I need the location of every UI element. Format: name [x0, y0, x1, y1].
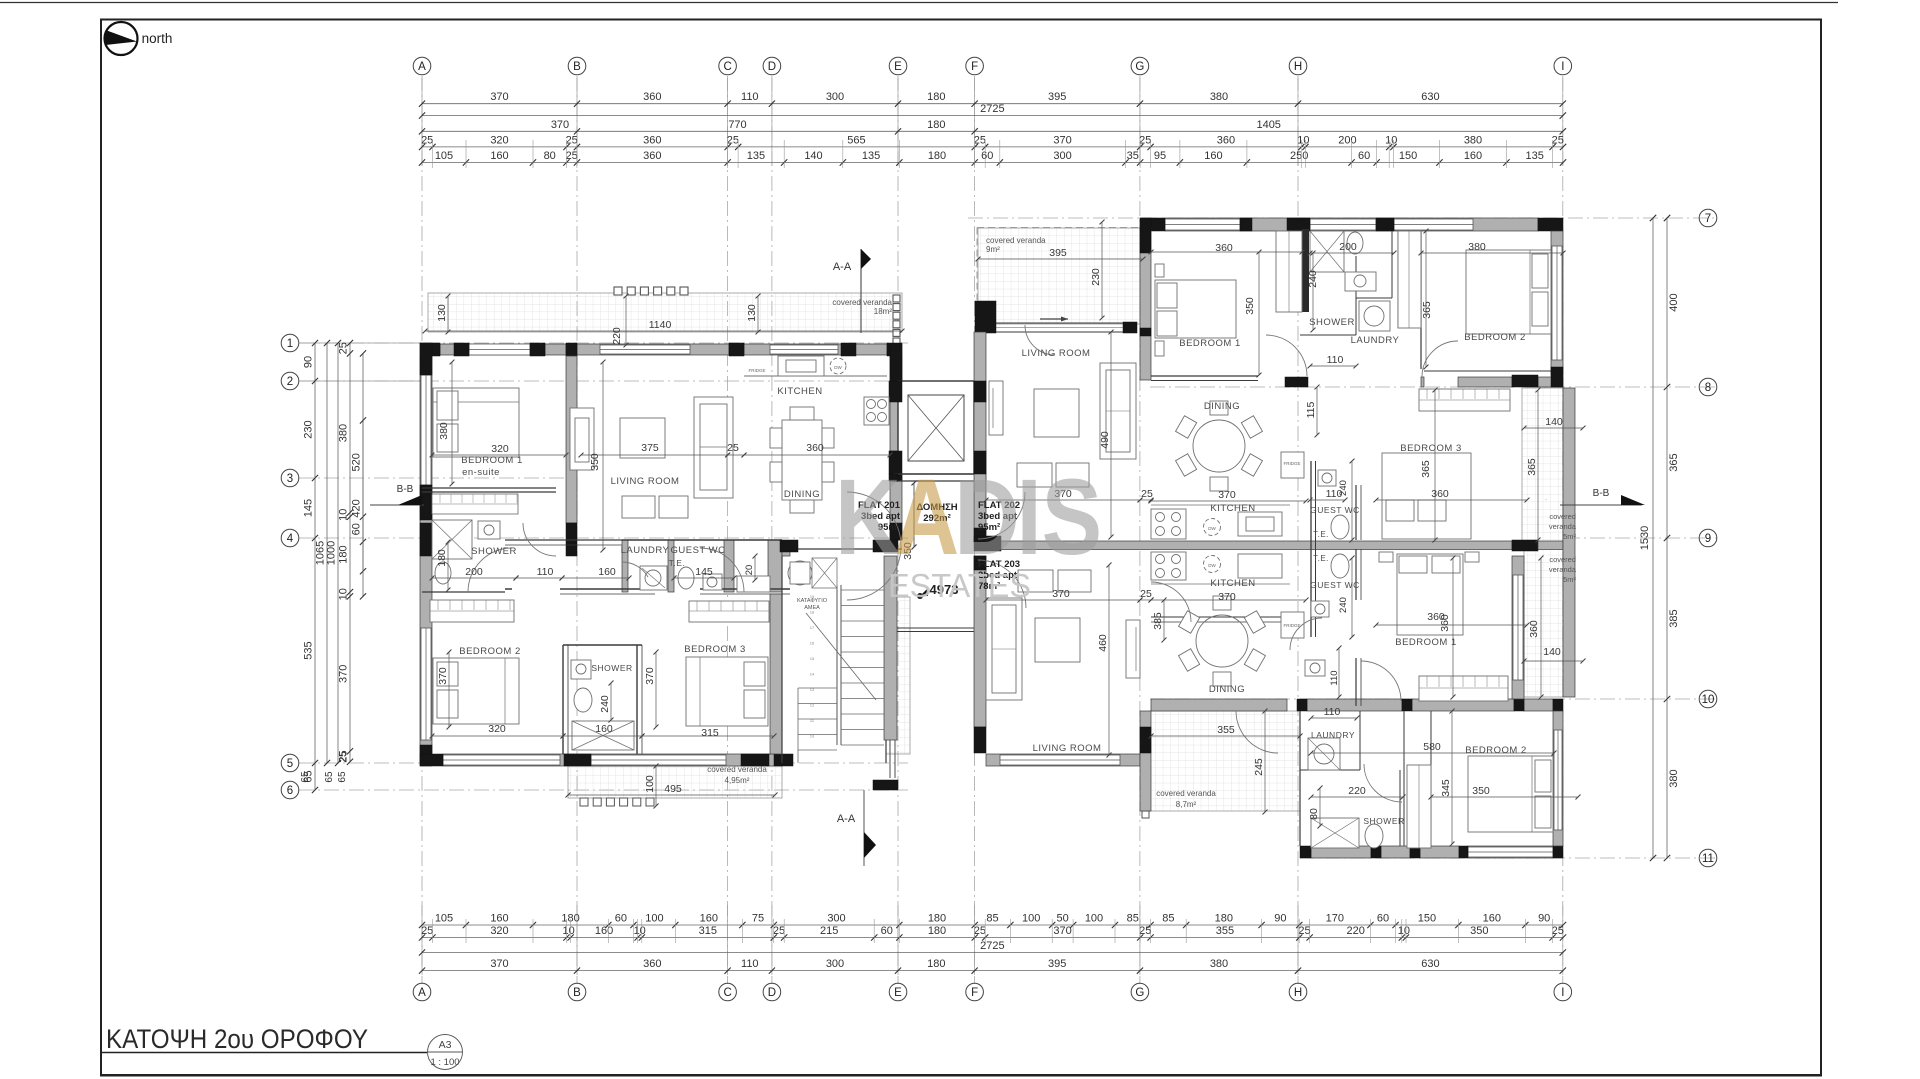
svg-text:240: 240: [1338, 480, 1349, 496]
svg-text:7: 7: [1705, 213, 1711, 225]
svg-text:en-suite: en-suite: [462, 467, 500, 478]
svg-text:DINING: DINING: [784, 489, 820, 500]
svg-text:395: 395: [1048, 958, 1066, 970]
svg-text:K: K: [835, 458, 901, 578]
svg-text:160: 160: [490, 150, 508, 162]
svg-text:18m²: 18m²: [874, 307, 893, 316]
svg-text:135: 135: [862, 150, 880, 162]
svg-text:25: 25: [974, 925, 986, 937]
svg-text:180: 180: [928, 150, 946, 162]
svg-text:370: 370: [551, 119, 569, 131]
svg-text:25: 25: [566, 134, 578, 146]
svg-text:15: 15: [810, 656, 815, 661]
svg-text:360: 360: [1431, 488, 1449, 500]
svg-text:535: 535: [303, 641, 315, 659]
svg-text:10: 10: [1297, 134, 1309, 146]
svg-text:25: 25: [1139, 925, 1151, 937]
svg-text:25: 25: [773, 925, 785, 937]
svg-text:85: 85: [986, 913, 998, 925]
svg-text:370: 370: [437, 667, 449, 685]
svg-text:380: 380: [1210, 91, 1228, 103]
svg-text:320: 320: [490, 134, 508, 146]
svg-text:395: 395: [1048, 91, 1066, 103]
svg-text:180: 180: [1215, 913, 1233, 925]
svg-text:BEDROOM 2: BEDROOM 2: [459, 646, 521, 657]
svg-text:60: 60: [1358, 150, 1370, 162]
svg-text:25: 25: [1140, 588, 1152, 600]
svg-text:I: I: [1016, 458, 1041, 578]
svg-text:D: D: [954, 458, 1020, 578]
svg-text:90: 90: [303, 356, 315, 368]
svg-text:25: 25: [566, 150, 578, 162]
svg-text:230: 230: [1090, 268, 1102, 286]
svg-text:160: 160: [598, 566, 616, 578]
svg-text:395: 395: [1049, 247, 1067, 259]
svg-text:300: 300: [826, 958, 844, 970]
svg-text:90: 90: [1538, 913, 1550, 925]
svg-text:215: 215: [820, 925, 838, 937]
svg-text:160: 160: [1204, 150, 1222, 162]
svg-text:60: 60: [881, 925, 893, 937]
svg-text:BEDROOM 1: BEDROOM 1: [461, 455, 523, 466]
svg-text:315: 315: [701, 727, 719, 739]
svg-text:16: 16: [810, 641, 815, 646]
svg-text:covered: covered: [1549, 555, 1576, 564]
svg-text:ESTATES: ESTATES: [888, 567, 1031, 604]
svg-text:200: 200: [465, 566, 483, 578]
svg-text:9: 9: [1705, 533, 1711, 545]
svg-text:B-B: B-B: [397, 484, 414, 495]
svg-text:380: 380: [1464, 134, 1482, 146]
svg-text:H: H: [1294, 987, 1302, 999]
svg-text:160: 160: [490, 913, 508, 925]
svg-text:355: 355: [1216, 925, 1234, 937]
svg-text:3: 3: [287, 473, 293, 485]
svg-text:245: 245: [1253, 758, 1265, 776]
svg-text:A3: A3: [439, 1039, 452, 1051]
svg-text:110: 110: [537, 566, 554, 578]
svg-text:520: 520: [351, 453, 363, 471]
svg-text:GUEST WC: GUEST WC: [1310, 505, 1360, 515]
svg-text:75: 75: [752, 913, 764, 925]
svg-text:BEDROOM 1: BEDROOM 1: [1395, 637, 1457, 648]
svg-text:95: 95: [1154, 150, 1166, 162]
svg-text:365: 365: [1668, 453, 1680, 471]
svg-text:1405: 1405: [1256, 119, 1280, 131]
svg-text:370: 370: [1053, 134, 1071, 146]
svg-text:I: I: [1561, 61, 1564, 73]
svg-text:180: 180: [338, 545, 350, 563]
svg-text:10: 10: [338, 509, 350, 521]
svg-text:T.E.: T.E.: [1313, 530, 1329, 539]
svg-text:25: 25: [1298, 925, 1310, 937]
svg-text:110: 110: [741, 91, 759, 103]
svg-text:105: 105: [435, 150, 453, 162]
svg-text:145: 145: [303, 499, 315, 517]
svg-text:9m²: 9m²: [986, 245, 1000, 254]
svg-text:365: 365: [1421, 301, 1433, 319]
svg-text:8,7m²: 8,7m²: [1176, 800, 1197, 809]
svg-text:100: 100: [1022, 913, 1040, 925]
svg-text:KITCHEN: KITCHEN: [1210, 503, 1255, 514]
svg-text:60: 60: [351, 523, 363, 535]
svg-text:T.E.: T.E.: [669, 558, 686, 568]
svg-text:A-A: A-A: [837, 813, 856, 825]
svg-text:180: 180: [436, 549, 448, 567]
svg-text:E: E: [894, 987, 902, 999]
svg-text:365: 365: [1420, 460, 1432, 478]
svg-text:420: 420: [351, 499, 363, 517]
svg-text:160: 160: [1483, 913, 1501, 925]
svg-text:105: 105: [435, 913, 453, 925]
svg-text:C: C: [723, 987, 731, 999]
svg-text:B: B: [573, 61, 581, 73]
svg-text:150: 150: [1399, 150, 1417, 162]
svg-text:135: 135: [1526, 150, 1544, 162]
svg-text:320: 320: [490, 925, 508, 937]
svg-text:300: 300: [1053, 150, 1071, 162]
svg-text:1: 1: [287, 338, 293, 350]
svg-text:180: 180: [927, 958, 945, 970]
svg-text:355: 355: [1217, 724, 1235, 736]
svg-text:80: 80: [544, 150, 556, 162]
svg-text:10: 10: [1702, 694, 1715, 706]
svg-text:C: C: [723, 61, 731, 73]
svg-text:1530: 1530: [1639, 526, 1651, 550]
svg-text:25: 25: [338, 751, 349, 763]
svg-text:65: 65: [300, 771, 311, 783]
svg-text:350: 350: [589, 453, 601, 471]
svg-text:veranda: veranda: [1549, 522, 1577, 531]
svg-text:380: 380: [1668, 769, 1680, 787]
svg-text:160: 160: [1464, 150, 1482, 162]
svg-text:SHOWER: SHOWER: [591, 663, 632, 673]
svg-text:A: A: [894, 458, 960, 578]
svg-text:370: 370: [1218, 591, 1236, 603]
svg-text:360: 360: [1528, 620, 1540, 638]
svg-text:F: F: [971, 61, 978, 73]
svg-text:E: E: [894, 61, 902, 73]
svg-text:covered: covered: [1549, 512, 1576, 521]
svg-text:35: 35: [1127, 150, 1139, 162]
svg-text:630: 630: [1421, 91, 1439, 103]
svg-text:370: 370: [338, 665, 350, 683]
svg-text:veranda: veranda: [1549, 565, 1577, 574]
svg-text:140: 140: [804, 150, 822, 162]
svg-text:17: 17: [810, 625, 815, 630]
svg-text:320: 320: [488, 723, 506, 735]
svg-text:130: 130: [746, 304, 758, 322]
svg-text:GUEST WC: GUEST WC: [670, 545, 725, 556]
svg-text:60: 60: [1377, 913, 1389, 925]
svg-text:380: 380: [438, 422, 450, 440]
svg-text:400: 400: [1668, 293, 1680, 311]
svg-text:T.E.: T.E.: [1313, 554, 1329, 563]
svg-text:A-A: A-A: [833, 261, 852, 273]
svg-text:2: 2: [287, 376, 293, 388]
svg-text:100: 100: [644, 775, 656, 793]
svg-text:350: 350: [1470, 925, 1488, 937]
svg-text:580: 580: [1423, 741, 1441, 753]
svg-text:350: 350: [1472, 785, 1490, 797]
svg-text:DW: DW: [1208, 563, 1216, 568]
svg-text:85: 85: [1127, 913, 1139, 925]
svg-text:ΚΑΤΟΨΗ 2ου ΟΡΟΦΟΥ: ΚΑΤΟΨΗ 2ου ΟΡΟΦΟΥ: [106, 1024, 368, 1054]
svg-text:BEDROOM 3: BEDROOM 3: [684, 644, 746, 655]
svg-text:370: 370: [1218, 489, 1236, 501]
svg-text:D: D: [768, 61, 776, 73]
svg-text:25: 25: [727, 442, 739, 454]
svg-text:25: 25: [1552, 925, 1564, 937]
svg-text:LIVING ROOM: LIVING ROOM: [1022, 348, 1091, 359]
svg-text:LIVING ROOM: LIVING ROOM: [1033, 743, 1102, 754]
svg-text:115: 115: [1305, 401, 1317, 418]
svg-text:10: 10: [1385, 134, 1397, 146]
svg-text:FRIDGE: FRIDGE: [1283, 623, 1300, 628]
svg-text:BEDROOM 2: BEDROOM 2: [1464, 332, 1526, 343]
svg-text:GUEST WC: GUEST WC: [1310, 580, 1360, 590]
svg-text:140: 140: [1543, 646, 1561, 658]
svg-text:160: 160: [700, 913, 718, 925]
svg-text:covered veranda: covered veranda: [832, 298, 892, 307]
svg-text:300: 300: [826, 91, 844, 103]
svg-text:385: 385: [1668, 609, 1680, 627]
svg-text:50: 50: [1056, 913, 1068, 925]
svg-text:4: 4: [287, 533, 294, 545]
svg-text:370: 370: [490, 91, 508, 103]
svg-text:LAUNDRY: LAUNDRY: [621, 545, 670, 556]
svg-text:100: 100: [1085, 913, 1103, 925]
svg-text:1000: 1000: [326, 541, 338, 565]
svg-text:370: 370: [490, 958, 508, 970]
svg-text:G: G: [1135, 987, 1144, 999]
svg-text:300: 300: [827, 913, 845, 925]
svg-text:covered veranda: covered veranda: [1156, 789, 1216, 798]
svg-text:KITCHEN: KITCHEN: [777, 386, 822, 397]
svg-text:495: 495: [664, 783, 682, 795]
svg-text:25: 25: [421, 134, 433, 146]
svg-text:B: B: [573, 987, 581, 999]
svg-text:230: 230: [303, 420, 315, 438]
svg-text:370: 370: [1053, 925, 1071, 937]
svg-text:10: 10: [634, 925, 646, 937]
svg-text:110: 110: [741, 958, 759, 970]
svg-text:ΚΑΤΑΦΥΓΙΟ: ΚΑΤΑΦΥΓΙΟ: [797, 598, 828, 604]
svg-text:360: 360: [643, 150, 661, 162]
svg-text:SHOWER: SHOWER: [1363, 816, 1404, 826]
svg-text:770: 770: [728, 119, 746, 131]
svg-text:DINING: DINING: [1209, 684, 1245, 695]
svg-text:220: 220: [611, 327, 623, 345]
svg-text:60: 60: [615, 913, 627, 925]
svg-text:KITCHEN: KITCHEN: [1210, 578, 1255, 589]
svg-text:2725: 2725: [980, 103, 1004, 115]
svg-text:LAUNDRY: LAUNDRY: [1351, 335, 1400, 346]
svg-text:200: 200: [1338, 134, 1356, 146]
svg-text:90: 90: [1274, 913, 1286, 925]
svg-text:160: 160: [595, 925, 613, 937]
svg-text:320: 320: [491, 443, 509, 455]
svg-text:360: 360: [643, 134, 661, 146]
svg-text:160: 160: [595, 723, 613, 735]
svg-text:80: 80: [1308, 808, 1320, 820]
svg-text:240: 240: [599, 695, 611, 713]
svg-text:130: 130: [436, 304, 448, 322]
svg-text:360: 360: [1217, 134, 1235, 146]
svg-text:565: 565: [847, 134, 865, 146]
svg-text:ΑΜΕΑ: ΑΜΕΑ: [804, 605, 820, 611]
svg-text:370: 370: [644, 667, 656, 685]
svg-text:360: 360: [806, 442, 824, 454]
svg-text:10: 10: [1398, 925, 1410, 937]
svg-text:85: 85: [1162, 913, 1174, 925]
svg-text:DW: DW: [1208, 526, 1216, 531]
svg-text:380: 380: [1468, 241, 1486, 253]
svg-text:360: 360: [643, 958, 661, 970]
svg-text:S: S: [1042, 458, 1103, 578]
svg-text:180: 180: [928, 913, 946, 925]
svg-text:110: 110: [1327, 354, 1344, 366]
svg-text:240: 240: [1307, 270, 1319, 288]
svg-text:360: 360: [1439, 614, 1451, 632]
svg-text:25: 25: [1141, 488, 1153, 500]
svg-text:150: 150: [1418, 913, 1436, 925]
svg-text:BEDROOM 2: BEDROOM 2: [1465, 745, 1527, 756]
svg-text:25: 25: [727, 134, 739, 146]
svg-text:1140: 1140: [649, 319, 672, 331]
svg-text:65: 65: [337, 771, 348, 783]
svg-text:170: 170: [1326, 913, 1344, 925]
svg-text:350: 350: [1244, 297, 1256, 315]
svg-text:SHOWER: SHOWER: [471, 546, 517, 557]
svg-text:380: 380: [338, 424, 350, 442]
svg-text:345: 345: [1440, 779, 1452, 797]
svg-text:180: 180: [927, 119, 945, 131]
svg-text:north: north: [142, 31, 173, 46]
svg-text:630: 630: [1421, 958, 1439, 970]
svg-text:LIVING ROOM: LIVING ROOM: [611, 476, 680, 487]
svg-text:A: A: [418, 987, 426, 999]
svg-text:5m²: 5m²: [1563, 532, 1576, 541]
svg-text:A: A: [418, 61, 426, 73]
svg-text:BEDROOM 3: BEDROOM 3: [1400, 443, 1462, 454]
svg-text:100: 100: [645, 913, 663, 925]
svg-text:G: G: [1135, 61, 1144, 73]
svg-text:460: 460: [1097, 634, 1109, 652]
svg-text:SHOWER: SHOWER: [1309, 317, 1355, 328]
svg-text:110: 110: [1324, 706, 1341, 718]
svg-text:F: F: [971, 987, 978, 999]
svg-text:14: 14: [810, 672, 815, 677]
svg-text:covered veranda: covered veranda: [707, 765, 767, 774]
svg-text:365: 365: [1526, 458, 1538, 476]
svg-text:DW: DW: [834, 365, 842, 370]
svg-text:2725: 2725: [980, 940, 1004, 952]
svg-text:5m²: 5m²: [1563, 575, 1576, 584]
svg-text:490: 490: [1099, 431, 1111, 449]
svg-text:4,95m²: 4,95m²: [725, 776, 750, 785]
svg-text:180: 180: [928, 925, 946, 937]
svg-text:60: 60: [981, 150, 993, 162]
svg-text:10: 10: [562, 925, 574, 937]
svg-text:220: 220: [1347, 925, 1365, 937]
svg-text:11: 11: [1702, 853, 1714, 865]
svg-text:385: 385: [1152, 612, 1164, 630]
svg-text:D: D: [768, 987, 776, 999]
svg-text:BEDROOM 1: BEDROOM 1: [1179, 338, 1241, 349]
svg-text:LAUNDRY: LAUNDRY: [1311, 730, 1355, 740]
svg-text:375: 375: [641, 442, 659, 454]
svg-text:10: 10: [338, 588, 350, 600]
svg-text:25: 25: [421, 925, 433, 937]
svg-text:6: 6: [287, 785, 293, 797]
svg-text:140: 140: [1545, 416, 1563, 428]
svg-text:240: 240: [1338, 597, 1349, 613]
svg-text:360: 360: [643, 91, 661, 103]
svg-text:135: 135: [747, 150, 765, 162]
svg-text:H: H: [1294, 61, 1302, 73]
svg-text:380: 380: [1210, 958, 1228, 970]
svg-text:315: 315: [699, 925, 717, 937]
svg-text:FRIDGE: FRIDGE: [1283, 461, 1300, 466]
svg-text:145: 145: [695, 566, 713, 578]
svg-text:370: 370: [1052, 588, 1070, 600]
svg-text:200: 200: [1339, 241, 1357, 253]
svg-text:360: 360: [1215, 242, 1233, 254]
svg-text:25: 25: [1139, 134, 1151, 146]
svg-text:25: 25: [338, 342, 350, 354]
svg-text:65: 65: [324, 771, 335, 783]
svg-text:25: 25: [974, 134, 986, 146]
svg-text:DINING: DINING: [1204, 401, 1240, 412]
svg-text:1 : 100: 1 : 100: [430, 1057, 459, 1068]
svg-text:20: 20: [744, 565, 755, 576]
svg-text:25: 25: [1552, 134, 1564, 146]
svg-text:B-B: B-B: [1593, 488, 1610, 499]
svg-text:5: 5: [287, 758, 293, 770]
svg-text:180: 180: [927, 91, 945, 103]
svg-text:covered veranda: covered veranda: [986, 236, 1046, 245]
svg-text:8: 8: [1705, 382, 1711, 394]
svg-text:220: 220: [1348, 785, 1366, 797]
svg-text:110: 110: [1329, 670, 1340, 685]
svg-text:FRIDGE: FRIDGE: [748, 368, 765, 373]
svg-text:I: I: [1561, 987, 1564, 999]
